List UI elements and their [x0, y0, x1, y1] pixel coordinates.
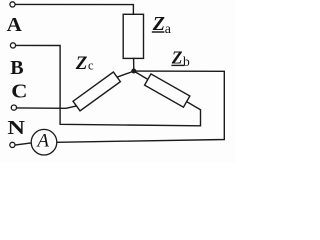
wire Za bottom to node	[133, 58, 135, 71]
terminal C	[11, 105, 16, 110]
ammeter A	[31, 129, 57, 155]
svg-text:b: b	[183, 54, 190, 69]
svg-text:A: A	[7, 14, 23, 36]
svg-text:Z: Z	[75, 53, 88, 74]
wire phase A: terminal to Za top	[16, 4, 134, 14]
svg-text:N: N	[7, 117, 25, 139]
wire N to ammeter	[16, 143, 32, 145]
node star point	[131, 69, 136, 74]
wire phase B: right, down, along bottom, up to Zb	[16, 45, 200, 125]
terminal N	[10, 142, 15, 147]
wire phase C horizontal	[17, 106, 76, 108]
svg-text:Z: Z	[171, 48, 183, 68]
svg-text:a: a	[165, 22, 172, 37]
terminal A	[10, 2, 15, 7]
svg-text:B: B	[10, 57, 23, 79]
terminal B	[10, 43, 15, 48]
svg-text:A: A	[35, 131, 49, 152]
svg-text:c: c	[88, 59, 94, 73]
wire node to Zb	[134, 71, 148, 80]
resistor Za	[123, 14, 143, 58]
resistor Zc	[73, 72, 120, 111]
wire Zc to node	[117, 71, 134, 77]
wire neutral: node right, down right side, to ammeter	[57, 71, 225, 142]
resistor Zb	[145, 74, 190, 107]
svg-text:C: C	[11, 81, 27, 103]
